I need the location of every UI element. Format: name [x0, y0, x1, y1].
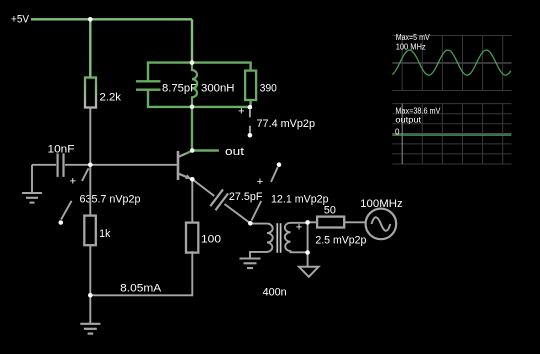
- ground arrow secondary: [299, 267, 319, 277]
- probe 12.1 mVp2p: [252, 162, 282, 220]
- svg-text:100: 100: [201, 233, 221, 245]
- node junction at +5V rail: [88, 17, 93, 22]
- label 2.2k: [100, 92, 122, 104]
- label 635.7 nVp2p: [80, 194, 141, 206]
- scope 1 trace: [392, 50, 511, 75]
- scope 1 label freq: [396, 42, 426, 51]
- svg-text:2.2k: 2.2k: [100, 92, 122, 104]
- node collector: [190, 148, 195, 153]
- svg-text:Max=38.6 mV: Max=38.6 mV: [395, 106, 441, 115]
- label 27.5pF: [229, 191, 263, 203]
- scope 2 trace: [392, 134, 511, 136]
- svg-text:100 MHz: 100 MHz: [396, 42, 426, 51]
- wire to ground left: [31, 165, 33, 192]
- wire +5V down to R 2.2k: [89, 19, 91, 77]
- resistor 50: [317, 217, 344, 228]
- label out: [225, 146, 245, 158]
- wire base: [90, 164, 177, 166]
- svg-text:8.05mA: 8.05mA: [120, 283, 161, 295]
- label 100: [201, 233, 221, 245]
- label 300nH: [201, 83, 235, 95]
- svg-text:300nH: 300nH: [201, 83, 235, 95]
- svg-text:27.5pF: 27.5pF: [229, 191, 263, 203]
- label 400n: [263, 286, 287, 298]
- probe 77.4 mVp2p: [238, 106, 252, 138]
- svg-text:100MHz: 100MHz: [360, 198, 403, 210]
- node tank top: [190, 60, 195, 65]
- transformer 400n: [250, 223, 308, 258]
- ground bottom: [80, 324, 100, 334]
- node bottom junction: [88, 293, 93, 298]
- node transformer input junction: [248, 221, 253, 226]
- probe 2.5 mVp2p: [296, 221, 308, 251]
- source 100MHz: [366, 209, 397, 240]
- wire tank bottom rail: [148, 90, 251, 107]
- label 12.1 mVp2p: [271, 193, 329, 205]
- svg-text:+: +: [296, 221, 303, 233]
- wire +5V corner down to tank: [191, 19, 193, 62]
- wire to ground bottom: [89, 295, 91, 323]
- scope 1 label Max: [396, 33, 431, 42]
- capacitor 8.75pF: [136, 81, 161, 89]
- wire bottom rail: [90, 251, 192, 295]
- svg-text:+: +: [70, 175, 77, 187]
- svg-text:8.75pF: 8.75pF: [162, 83, 197, 95]
- node emitter: [190, 177, 195, 182]
- svg-text:1k: 1k: [99, 228, 110, 240]
- label 8.05mA: [120, 283, 161, 295]
- svg-text:+: +: [257, 176, 264, 188]
- resistor 390: [245, 71, 256, 100]
- scope 2 panel: [392, 104, 511, 164]
- ground transformer primary: [240, 259, 261, 269]
- scope 2 label Max: [395, 106, 441, 115]
- transistor Q1: [178, 151, 192, 180]
- scope 2 zero label: [395, 127, 400, 136]
- label 2.5 mVp2p: [315, 234, 366, 246]
- svg-text:out: out: [225, 146, 245, 158]
- wire base node down to R 1k: [89, 165, 91, 216]
- wire tank top rail: [148, 63, 251, 81]
- wire R50 to source: [344, 221, 365, 223]
- node base junction: [88, 163, 93, 168]
- node tank bottom left: [190, 105, 195, 110]
- resistor 1k: [84, 216, 96, 246]
- node secondary bottom: [305, 250, 310, 255]
- label 50: [324, 205, 336, 217]
- label 77.4 mVp2p: [257, 118, 316, 130]
- svg-text:77.4 mVp2p: 77.4 mVp2p: [257, 118, 316, 130]
- wire 1k to bottom junction: [89, 245, 91, 295]
- label 10nF: [48, 143, 75, 155]
- inductor 300nH: [192, 63, 197, 107]
- label 390: [260, 83, 277, 95]
- svg-text:+: +: [238, 106, 245, 118]
- node tank bottom right: [248, 105, 253, 110]
- resistor 2.2k: [85, 78, 96, 108]
- wire +5V rail top: [31, 18, 192, 20]
- svg-text:400n: 400n: [263, 286, 287, 298]
- wire R2.2k bottom to base node: [89, 108, 91, 165]
- wire tank to collector: [191, 107, 193, 151]
- node +5V label: [11, 14, 29, 26]
- svg-text:10nF: 10nF: [48, 143, 75, 155]
- svg-text:Max=5 mV: Max=5 mV: [396, 33, 431, 42]
- resistor 100: [186, 223, 198, 253]
- label 100MHz: [360, 198, 403, 210]
- probe 635.7 nVp2p: [59, 168, 89, 225]
- label 8.75pF: [162, 83, 197, 95]
- wire out: [192, 149, 219, 151]
- svg-text:390: 390: [260, 83, 277, 95]
- capacitor 27.5pF diagonal: [192, 179, 250, 223]
- svg-text:0: 0: [395, 127, 400, 136]
- scope 1 panel: [392, 36, 511, 91]
- svg-text:635.7 nVp2p: 635.7 nVp2p: [80, 194, 141, 206]
- svg-text:12.1 mVp2p: 12.1 mVp2p: [271, 193, 329, 205]
- label 1k: [99, 228, 110, 240]
- wire secondary to ground: [307, 253, 309, 267]
- node secondary top: [305, 220, 310, 225]
- svg-text:+5V: +5V: [11, 14, 29, 26]
- ground left: [22, 193, 42, 203]
- svg-text:50: 50: [324, 205, 336, 217]
- svg-text:2.5 mVp2p: 2.5 mVp2p: [315, 234, 366, 246]
- wire emitter to R 100: [191, 179, 193, 222]
- scope 2 label output: [395, 116, 422, 125]
- capacitor 10nF: [32, 153, 90, 177]
- svg-text:output: output: [395, 116, 422, 125]
- wire secondary to R 50: [308, 221, 318, 223]
